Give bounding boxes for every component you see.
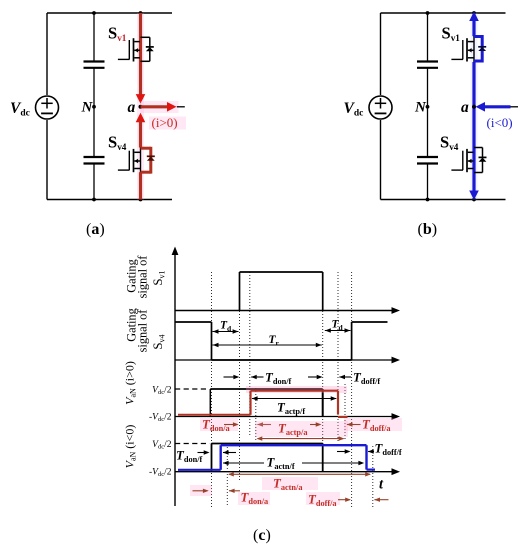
body diode Sv1 under blue path xyxy=(478,47,486,51)
svg-text:Tactp/f: Tactp/f xyxy=(277,401,305,417)
svg-text:a: a xyxy=(128,99,136,116)
diode branch Sv4 xyxy=(474,148,483,173)
junction dots xyxy=(426,11,476,201)
current path red to bottom rail xyxy=(139,172,142,199)
MOSFET Sv4 xyxy=(118,148,141,173)
dimension Tactp/a red xyxy=(255,421,348,437)
dashed level Vdc/2 row3 xyxy=(175,388,209,390)
current path blue through node a xyxy=(472,62,475,193)
capacitor C2 xyxy=(84,157,105,164)
axis row2 gating Sv4 xyxy=(175,357,400,364)
dimension Tr xyxy=(213,334,322,348)
output current arrow (i&gt;0) xyxy=(141,101,179,113)
diode branch Sv1 xyxy=(141,37,150,61)
wire bottom rail xyxy=(47,199,172,201)
dotted timeline t0b (blue rise ref) xyxy=(226,447,228,507)
svg-text:Sv1: Sv1 xyxy=(151,270,167,285)
MOSFET channel stubs xyxy=(134,42,140,58)
junction dots xyxy=(92,11,142,201)
wire output stub xyxy=(511,106,519,108)
time axis vertical xyxy=(172,247,179,507)
dimension Tdon/f row4 xyxy=(176,449,236,465)
wire output stub xyxy=(177,106,185,108)
voltage source Vdc xyxy=(36,96,59,119)
current arrow up into node a xyxy=(136,113,146,148)
current arrow down to bottom rail xyxy=(469,191,479,201)
gating signal Sv1 waveform xyxy=(240,272,323,311)
MOSFET Sv4 xyxy=(451,149,473,172)
dimension Td left xyxy=(213,320,239,334)
label (i&gt;0) xyxy=(149,115,186,130)
node a junction xyxy=(128,99,143,116)
svg-text:N: N xyxy=(414,100,427,116)
capacitor C1 xyxy=(84,62,105,68)
svg-text:VaN (i>0): VaN (i>0) xyxy=(123,361,138,405)
dimension Tdon/a red row3 xyxy=(200,418,271,434)
axis row3 vaN positive xyxy=(175,413,400,420)
dimension Tdoff/f row3 xyxy=(339,371,380,387)
svg-text:-Vdc/2: -Vdc/2 xyxy=(149,468,172,479)
dimension Tdon/a red row4 xyxy=(190,485,270,506)
current path blue around Sv1 diode xyxy=(474,35,482,63)
current path red through Sv1 xyxy=(137,13,144,200)
wire top rail xyxy=(47,12,172,14)
vaN actual waveform (blue) row4 xyxy=(178,445,375,470)
current path red around Sv4 diode xyxy=(141,147,151,174)
svg-text:Tdoff/f: Tdoff/f xyxy=(375,442,402,458)
dotted timeline t5b xyxy=(344,384,346,441)
dotted timeline t1 (Sv4 off) xyxy=(211,272,213,507)
dotted timeline t2 (Sv1 on) xyxy=(239,272,241,481)
MOSFET gate plate xyxy=(466,38,468,61)
dimension Tdon/f row3 xyxy=(224,371,323,387)
wire bottom rail xyxy=(381,199,506,201)
axis row4 vaN negative xyxy=(175,468,400,475)
svg-text:Vdc: Vdc xyxy=(344,100,364,119)
dimension Tdoff/a red row3 xyxy=(344,418,402,434)
body diode symbol xyxy=(146,47,154,51)
svg-text:Sv1: Sv1 xyxy=(108,24,127,44)
dotted timeline t3b xyxy=(255,388,257,441)
dimension Tactn/a red long xyxy=(228,472,371,492)
MOSFET gate lead xyxy=(451,151,463,170)
svg-text:(i>0): (i>0) xyxy=(152,115,178,130)
vaN forced waveform (black) row3 xyxy=(210,389,322,417)
dimension red long span row3 xyxy=(257,436,345,440)
wire left branch xyxy=(380,13,382,200)
svg-text:Td: Td xyxy=(332,319,344,333)
dimension Tdoff/f row4 xyxy=(337,442,402,458)
svg-text:a: a xyxy=(461,99,469,116)
svg-text:(i<0): (i<0) xyxy=(487,115,513,130)
wire capacitor branch xyxy=(427,13,429,200)
dimension Tdoff/a red row4 xyxy=(306,492,389,508)
svg-text:Sv4: Sv4 xyxy=(108,133,127,153)
svg-text:Tr: Tr xyxy=(269,334,280,348)
dotted timeline t6 (Sv4 on) xyxy=(351,272,353,507)
MOSFET gate plate xyxy=(133,38,135,61)
MOSFET gate lead xyxy=(118,40,130,59)
vaN forced waveform (black) row4 xyxy=(212,444,323,472)
svg-text:(b): (b) xyxy=(418,221,438,238)
node N xyxy=(414,100,429,116)
node N xyxy=(81,100,96,116)
MOSFET channel stubs xyxy=(468,152,474,168)
wire capacitor branch xyxy=(93,13,95,200)
svg-text:Vdc/2: Vdc/2 xyxy=(152,440,172,451)
MOSFET gate plate xyxy=(133,149,135,172)
svg-text:Vdc/2: Vdc/2 xyxy=(152,386,172,397)
input current arrow (i&lt;0) pointing left into a xyxy=(476,102,511,112)
dimension Tactn/f xyxy=(223,456,364,472)
MOSFET Sv1 xyxy=(451,36,474,63)
node a junction xyxy=(461,99,476,116)
svg-text:Sv1: Sv1 xyxy=(442,24,461,44)
svg-text:Tdoff/f: Tdoff/f xyxy=(353,371,380,387)
dotted timeline t4 (Sv1 off) xyxy=(322,272,324,470)
svg-text:Sv4: Sv4 xyxy=(440,133,459,153)
row1 label Gating signal of Sv1 xyxy=(125,255,167,299)
capacitor C1 xyxy=(417,62,438,68)
wire top rail xyxy=(381,12,506,14)
row2 label Gating signal of Sv4 xyxy=(125,308,167,352)
svg-text:Tdon/f: Tdon/f xyxy=(176,449,203,465)
MOSFET gate lead xyxy=(118,151,130,170)
wire left branch xyxy=(46,13,48,200)
dimension Td right xyxy=(325,319,351,333)
dotted timeline t7b (blue fall ref) xyxy=(372,446,374,507)
MOSFET channel stubs xyxy=(134,152,140,168)
svg-text:-Vdc/2: -Vdc/2 xyxy=(149,413,172,424)
current path blue with up arrow at top xyxy=(469,12,479,200)
vaN actual waveform (red) row3 xyxy=(178,386,348,417)
capacitor C2 xyxy=(417,157,438,164)
svg-text:Td: Td xyxy=(220,320,232,334)
body diode Sv4 under red path xyxy=(147,156,155,160)
axis row1 gating Sv1 xyxy=(175,307,400,314)
svg-text:signal of: signal of xyxy=(136,255,150,299)
dotted timeline t5 (vaN fall actual) xyxy=(337,272,339,441)
dashed level Vdc/2 row4 xyxy=(175,443,210,445)
svg-text:t: t xyxy=(379,477,384,493)
current arrow into node a (down) xyxy=(136,94,146,104)
dimension Tactp/f xyxy=(252,396,337,416)
gating signal Sv4 waveform xyxy=(175,322,388,360)
svg-text:Tactn/f: Tactn/f xyxy=(267,456,295,472)
svg-text:VaN (i<0): VaN (i<0) xyxy=(123,425,138,469)
svg-text:signal of: signal of xyxy=(136,309,150,353)
MOSFET gate plate xyxy=(466,149,468,172)
svg-text:(a): (a) xyxy=(86,221,105,238)
svg-text:Sv4: Sv4 xyxy=(151,334,167,349)
MOSFET Sv1 xyxy=(118,38,140,61)
MOSFET channel stubs xyxy=(468,42,474,58)
svg-text:N: N xyxy=(81,100,94,116)
svg-text:(c): (c) xyxy=(253,527,271,544)
voltage source Vdc xyxy=(369,96,392,119)
dotted timeline t3 (vaN rise actual) xyxy=(249,272,251,437)
svg-text:Tdon/f: Tdon/f xyxy=(265,371,292,387)
body diode symbol xyxy=(479,157,487,161)
MOSFET gate lead xyxy=(451,40,463,59)
svg-text:Vdc: Vdc xyxy=(10,100,30,119)
